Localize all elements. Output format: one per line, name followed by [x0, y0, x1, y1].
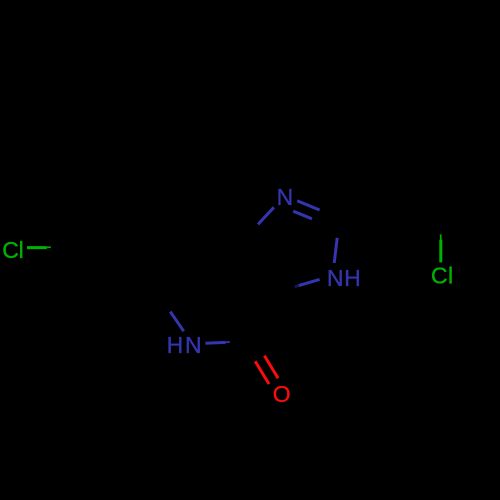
bond Cl-left to C8 (green half) [27, 246, 47, 249]
bond Cl-right to phenyl (green half) [439, 240, 442, 263]
bond N3 to C3a (blue half) [299, 279, 320, 285]
double bond C4=O line 2 (red half) [255, 361, 269, 384]
bond N1 to C9b (blue half) [258, 207, 274, 224]
bond C2 to N3 (blue half) [334, 238, 337, 263]
svg-text:O: O [273, 381, 291, 407]
double bond C4=O line 1 (red half) [264, 356, 278, 379]
bond benzene C6 to N5 (blue half) [170, 312, 183, 332]
wire [27, 201, 441, 384]
svg-text:Cl: Cl [431, 263, 453, 289]
double bond N1=C2 outer line (blue half) [297, 201, 319, 210]
svg-text:N: N [277, 184, 294, 210]
bond N5 to C4 (blue half) [205, 341, 225, 345]
svg-text:HN: HN [167, 332, 202, 358]
svg-text:Cl: Cl [2, 237, 23, 263]
svg-text:NH: NH [327, 265, 361, 291]
double bond N1=C2 inner line (blue half) [293, 211, 312, 219]
